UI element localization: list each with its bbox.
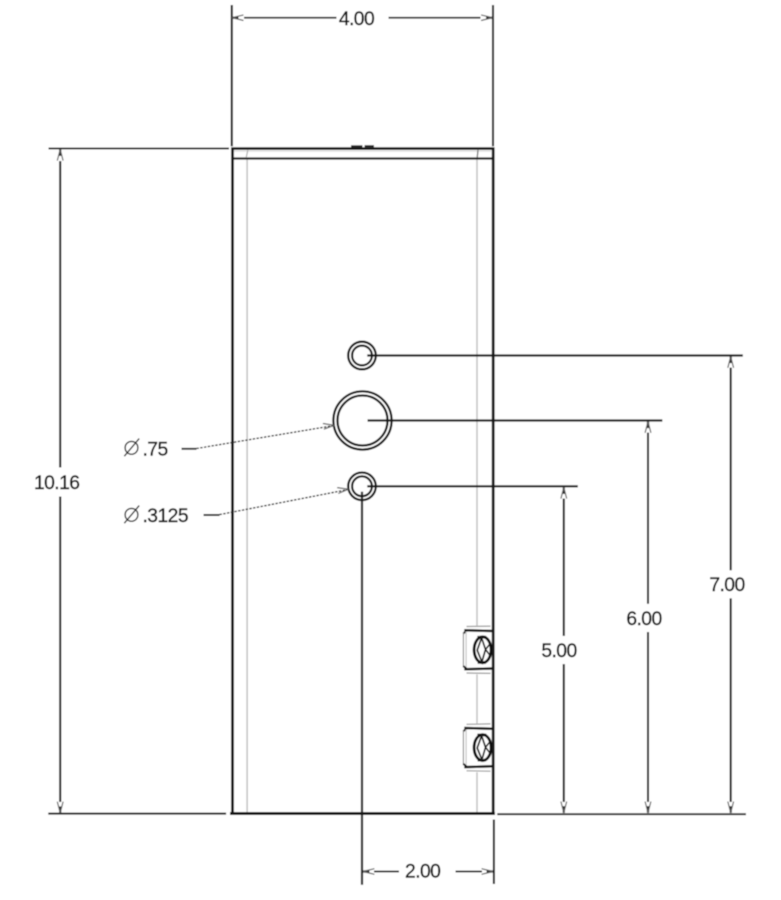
hole C3 inner ring <box>352 476 372 496</box>
svg-text:6.00: 6.00 <box>626 609 661 630</box>
right tangent edge (light) <box>476 160 478 813</box>
svg-text:7.00: 7.00 <box>709 575 744 596</box>
top edge small dash left <box>351 145 362 147</box>
dim 2.00 line right segment <box>456 871 483 873</box>
leader .3125 arrowhead <box>337 488 348 494</box>
leader .75 sloped line <box>197 426 333 449</box>
leader .3125 sloped line <box>220 490 347 515</box>
top band lower edge <box>231 157 493 159</box>
dim 5.00 bottom arrowhead <box>563 806 565 813</box>
dim 5.00 line upper segment <box>563 499 565 636</box>
dim 10.16 line lower segment <box>59 497 61 803</box>
dim 10.16 bottom extension line <box>48 813 226 815</box>
dim 7.00 bottom arrowhead <box>730 806 732 813</box>
top edge small dash right <box>365 145 374 147</box>
dim 4.00 left extension line <box>231 5 233 146</box>
hole C2 outer ring (chamfer) <box>333 391 391 449</box>
dim 6.00 line lower segment <box>647 632 649 802</box>
part bottom edge <box>230 812 495 815</box>
svg-text:5.00: 5.00 <box>541 641 576 662</box>
svg-text:.75: .75 <box>143 439 168 460</box>
hole C2 inner ring <box>338 396 388 446</box>
dim 2.00 right extension line <box>493 820 495 885</box>
label diameter .75 phi symbol <box>124 439 139 457</box>
label diameter .3125 phi symbol <box>124 506 139 524</box>
dim 4.00 right extension line <box>492 5 494 146</box>
dim 7.00 line lower segment <box>730 598 732 802</box>
dim 7.00 line upper segment <box>730 368 732 571</box>
dim 4.00 line right segment <box>389 17 481 19</box>
centerline from C3 down to 2.00 dimension <box>361 492 363 885</box>
top band left tangent tick <box>246 150 248 157</box>
left tangent edge (light) <box>246 160 248 813</box>
dim 2.00 right arrowhead <box>487 870 494 872</box>
dim 4.00 right arrowhead <box>486 17 493 19</box>
svg-text:2.00: 2.00 <box>405 862 440 883</box>
hole C1 inner ring <box>352 346 372 366</box>
dim 6.00 line upper segment <box>647 433 649 604</box>
dim 6.00 top arrowhead <box>647 422 649 429</box>
top band right tangent tick <box>476 150 479 157</box>
hole C3 outer ring (chamfer) <box>348 473 376 501</box>
svg-text:4.00: 4.00 <box>339 9 374 30</box>
leader .75 tail <box>182 448 197 450</box>
part body right edge <box>492 148 495 814</box>
dim 4.00 left arrowhead <box>232 17 239 19</box>
screw S2 <box>463 723 493 772</box>
screw S1 <box>463 626 493 675</box>
centerline from C3 to 5.00 dimension <box>367 485 578 487</box>
part body left edge <box>231 148 234 814</box>
dim 2.00 left arrowhead <box>363 870 370 872</box>
part top edge <box>231 147 494 150</box>
leader .75 arrowhead <box>323 424 334 430</box>
dim 10.16 bottom arrowhead <box>59 806 61 813</box>
dim 10.16 top extension line <box>49 147 230 149</box>
centerline from C2 to 6.00 dimension <box>368 419 663 421</box>
dim 6.00 bottom arrowhead <box>647 806 649 813</box>
dim 4.00 line left segment <box>244 17 337 19</box>
dim 5.00 line lower segment <box>563 664 565 802</box>
dim 7.00 top arrowhead <box>730 357 732 364</box>
dim 2.00 line left segment <box>374 871 399 873</box>
svg-text:.3125: .3125 <box>143 506 189 527</box>
centerline from C1 to 7.00 dimension <box>367 354 743 356</box>
dim 10.16 line upper segment <box>59 161 61 468</box>
bottom-right extension line <box>497 813 746 815</box>
top band inner highlight line <box>234 150 491 152</box>
hole C1 outer ring (chamfer) <box>348 342 376 370</box>
svg-text:10.16: 10.16 <box>34 473 80 494</box>
leader .3125 tail <box>204 514 220 516</box>
dim 10.16 top arrowhead <box>59 149 61 156</box>
dim 5.00 top arrowhead <box>563 487 565 494</box>
